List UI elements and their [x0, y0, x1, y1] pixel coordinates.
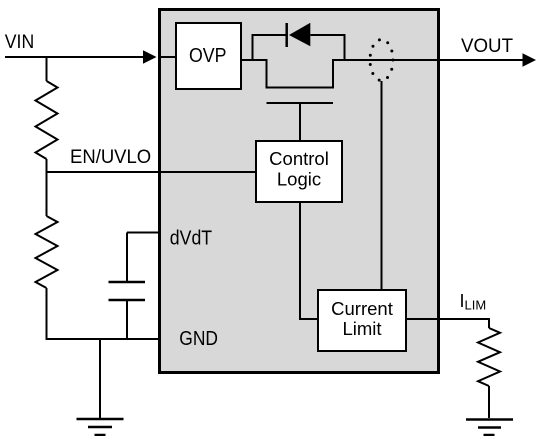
svg-text:ILIM: ILIM	[460, 291, 487, 312]
svg-text:Current: Current	[331, 298, 393, 319]
svg-text:dVdT: dVdT	[170, 227, 212, 249]
svg-text:VIN: VIN	[5, 32, 34, 53]
svg-text:Control: Control	[269, 148, 329, 169]
svg-text:EN/UVLO: EN/UVLO	[70, 147, 151, 168]
svg-text:OVP: OVP	[189, 45, 227, 67]
svg-text:Logic: Logic	[277, 169, 321, 190]
svg-text:GND: GND	[179, 328, 218, 350]
svg-text:Limit: Limit	[342, 318, 381, 339]
svg-text:VOUT: VOUT	[461, 36, 513, 57]
